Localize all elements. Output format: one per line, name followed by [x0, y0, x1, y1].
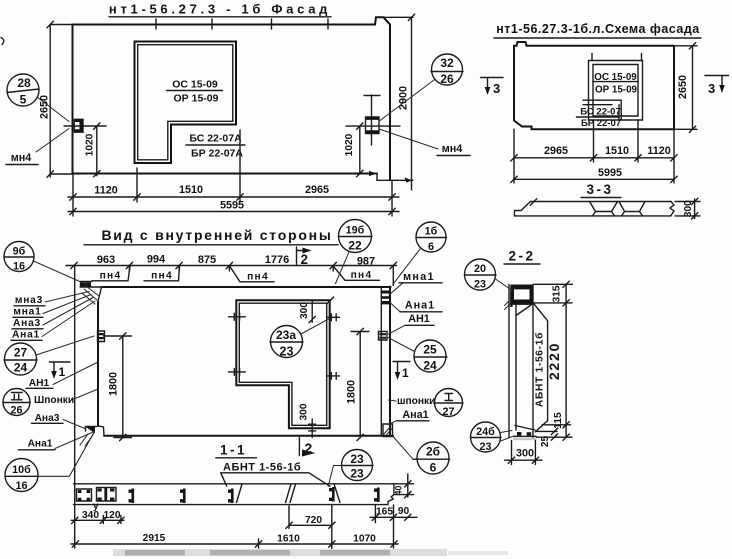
schema window notch box — [583, 100, 621, 120]
svg-text:315: 315 — [552, 285, 563, 302]
callout circle 23a/23 — [271, 326, 303, 358]
svg-text:120: 120 — [104, 510, 121, 521]
svg-text:БР 22-07: БР 22-07 — [581, 118, 621, 129]
small mark at left edge — [1, 38, 4, 45]
anchor cross right bottom — [327, 372, 340, 379]
mid-left bracket — [98, 331, 105, 342]
bottom dim line 5995 — [514, 162, 674, 183]
leader 10b/16 to corner — [38, 432, 94, 477]
svg-text:20: 20 — [474, 263, 486, 275]
svg-text:300: 300 — [683, 200, 694, 217]
section 3-3 slab outline — [515, 202, 672, 216]
break line right end — [670, 202, 674, 216]
svg-text:5: 5 — [20, 93, 27, 107]
svg-text:Ана3: Ана3 — [13, 318, 41, 329]
dim 2900 right — [411, 17, 413, 190]
body top bevel — [516, 305, 531, 316]
dim 300 bottom — [505, 441, 543, 465]
mid-right bracket — [379, 332, 388, 341]
svg-text:1776: 1776 — [265, 254, 289, 266]
joint ticks on facade top edge — [156, 19, 328, 29]
underline — [167, 90, 223, 92]
svg-text:АН1: АН1 — [29, 378, 50, 389]
small arrow at facade bottom edge end — [369, 171, 377, 176]
dim 300 right — [675, 199, 700, 219]
section 1-1 slab outline — [74, 484, 394, 505]
svg-text:26: 26 — [440, 72, 454, 86]
svg-text:1510: 1510 — [179, 184, 203, 196]
leader from 28/5 to left embed — [37, 97, 69, 122]
svg-text:115: 115 — [553, 412, 564, 429]
title underline — [504, 263, 540, 265]
window opening L-shape outer — [135, 42, 237, 164]
anchor cross bottom edge — [309, 419, 316, 437]
svg-text:пн4: пн4 — [151, 271, 173, 282]
svg-text:24: 24 — [423, 359, 437, 373]
top dim line — [66, 266, 397, 272]
svg-text:23а: 23а — [276, 328, 296, 342]
right embed detail mn4 — [346, 95, 400, 145]
key slant lines in slab — [237, 484, 341, 503]
svg-text:Вид с внутренней стороны: Вид с внутренней стороны — [101, 227, 332, 243]
schema window outer — [589, 61, 643, 121]
svg-text:28: 28 — [17, 76, 31, 90]
facade panel outline — [73, 17, 391, 180]
panel right edge inner line — [380, 287, 382, 436]
section mark 1 left — [50, 362, 71, 375]
svg-text:23: 23 — [350, 452, 364, 466]
dim 40 right end — [394, 474, 414, 497]
svg-text:23: 23 — [479, 441, 491, 453]
svg-text:22: 22 — [348, 239, 362, 253]
svg-text:БС 22-07А: БС 22-07А — [189, 133, 242, 145]
facade bottom-right step extension — [377, 174, 413, 181]
panel outline — [98, 287, 393, 436]
svg-text:шпонки: шпонки — [397, 396, 435, 407]
svg-text:Шпонки: Шпонки — [34, 395, 74, 406]
svg-text:пн4: пн4 — [351, 270, 373, 281]
svg-text:23: 23 — [280, 345, 294, 359]
callout circle 25/24 — [414, 340, 446, 372]
svg-text:3-3: 3-3 — [586, 182, 613, 197]
svg-text:1610: 1610 — [277, 534, 300, 545]
schema window inner — [593, 65, 638, 117]
extension right — [392, 266, 394, 286]
top extension line — [534, 283, 573, 285]
bottom dim 2915/1610/1070 — [71, 505, 398, 548]
svg-text:БР 22-07А: БР 22-07А — [191, 148, 243, 160]
svg-text:300: 300 — [299, 302, 310, 319]
svg-text:1800: 1800 — [346, 380, 358, 404]
svg-text:25: 25 — [540, 436, 551, 448]
svg-text:2: 2 — [305, 440, 313, 456]
dim 300 top of opening — [311, 300, 313, 322]
stubs above window corners — [592, 54, 642, 61]
dim 340/120 — [71, 516, 124, 524]
svg-text:5995: 5995 — [598, 167, 622, 179]
svg-text:2б: 2б — [426, 445, 440, 459]
bottom dim line 2965/1510/1120 — [514, 120, 674, 162]
leader mn4 right to embed — [379, 129, 438, 149]
callout circle 27/24 — [5, 343, 37, 375]
svg-text:9б: 9б — [13, 246, 26, 258]
bottom bearing detail — [514, 435, 537, 437]
svg-text:3: 3 — [708, 81, 715, 96]
leader mn4 to embed — [36, 129, 69, 153]
section mark 1 right — [393, 362, 410, 376]
schema window division line — [593, 81, 638, 83]
callout circle 28/5 — [7, 74, 39, 106]
svg-text:40: 40 — [394, 486, 404, 496]
callout circle 32/26 — [432, 54, 463, 85]
title underline — [216, 457, 257, 459]
bottom dim line 5595 — [68, 211, 399, 213]
dim 720 — [289, 505, 332, 549]
underline — [576, 116, 619, 118]
svg-text:2915: 2915 — [143, 533, 166, 544]
svg-text:32: 32 — [440, 56, 454, 70]
callout circle II/26 — [3, 389, 30, 416]
leader 23a to opening corner — [301, 319, 330, 335]
joint key trapezoid 2 — [619, 202, 645, 216]
facade top-right tab extension line — [384, 16, 414, 18]
svg-text:мна3: мна3 — [15, 295, 43, 306]
top-left corner anchor detail — [80, 282, 102, 288]
svg-text:мн4: мн4 — [442, 143, 463, 155]
anchor cross left top — [229, 313, 246, 320]
svg-text:1020: 1020 — [344, 133, 355, 156]
svg-text:10б: 10б — [12, 464, 31, 476]
dim line right of 2-2 — [534, 284, 572, 437]
section mark 2 bottom — [298, 438, 300, 456]
anchor cross left bottom — [229, 368, 246, 375]
svg-text:нт1-56.27.3-1б.л.Схема фасада: нт1-56.27.3-1б.л.Схема фасада — [496, 22, 700, 36]
svg-text:300: 300 — [516, 448, 534, 460]
svg-text:Ана1: Ана1 — [405, 300, 435, 312]
left anchor complex box 1 — [77, 489, 92, 501]
title underline — [109, 16, 331, 18]
callout circle 10b/16 — [5, 459, 38, 492]
dim 2650 left — [50, 25, 72, 178]
svg-text:БС 22-07: БС 22-07 — [580, 107, 621, 118]
title underline — [494, 37, 701, 39]
leader 23/23 to slab anchor — [328, 466, 341, 487]
svg-text:АН1: АН1 — [408, 313, 430, 325]
bottom smudge band — [113, 549, 447, 556]
svg-text:Ана1: Ана1 — [12, 330, 40, 341]
svg-text:Ана1: Ана1 — [28, 439, 53, 450]
left embed detail mn4 — [64, 119, 106, 132]
dim 165 — [370, 506, 417, 523]
anchor cross right top — [327, 314, 340, 321]
section mark 3 right — [705, 76, 729, 88]
callout circle I/27 — [435, 389, 463, 417]
svg-text:2965: 2965 — [544, 145, 568, 157]
svg-text:90: 90 — [398, 506, 410, 517]
section mark 3 left — [481, 78, 504, 90]
callout circle 2b/6 — [417, 442, 449, 474]
svg-text:2220: 2220 — [546, 342, 562, 380]
svg-text:2650: 2650 — [39, 95, 51, 119]
opening inner — [239, 303, 326, 425]
callout circle 24b/23 — [471, 422, 501, 452]
svg-text:19б: 19б — [346, 225, 365, 237]
svg-text:23: 23 — [350, 467, 364, 481]
dim 2650 right — [674, 46, 697, 130]
callout circle 1b/6 — [416, 222, 446, 252]
svg-text:300: 300 — [299, 403, 310, 420]
svg-text:1120: 1120 — [647, 145, 670, 157]
section body edges — [509, 285, 533, 438]
slash on slab top left — [530, 198, 537, 205]
callout circle 9b/16 — [4, 242, 34, 272]
window opening L-shape inner — [138, 45, 233, 160]
svg-text:987: 987 — [357, 256, 375, 268]
callout circle 23/23 — [342, 450, 373, 481]
title underline — [581, 197, 621, 199]
svg-text:994: 994 — [147, 254, 166, 266]
svg-text:2650: 2650 — [677, 75, 689, 99]
long extension line left — [74, 266, 76, 549]
svg-text:1800: 1800 — [108, 372, 120, 396]
svg-text:ОС 15-09: ОС 15-09 — [172, 79, 218, 91]
svg-text:АБНТ 1-56-1б: АБНТ 1-56-1б — [534, 332, 546, 407]
svg-text:6: 6 — [430, 461, 437, 475]
svg-text:1020: 1020 — [85, 133, 96, 156]
svg-text:963: 963 — [97, 254, 115, 266]
leader from 32/26 to right embed — [380, 80, 434, 121]
svg-text:23: 23 — [474, 279, 486, 291]
svg-text:16: 16 — [15, 480, 27, 492]
svg-text:нт1-56.27.3 - 1б Фасад: нт1-56.27.3 - 1б Фасад — [109, 2, 331, 17]
svg-text:25: 25 — [423, 343, 437, 357]
svg-text:24: 24 — [14, 361, 28, 375]
svg-text:мна1: мна1 — [13, 307, 41, 318]
top channel detail frame — [511, 285, 533, 304]
svg-text:24б: 24б — [476, 426, 495, 438]
svg-text:165: 165 — [376, 507, 393, 518]
joint key trapezoid 1 — [590, 202, 618, 216]
svg-text:875: 875 — [198, 254, 216, 266]
top-right bracket — [382, 291, 391, 305]
svg-text:1070: 1070 — [353, 534, 376, 545]
svg-text:Ана3: Ана3 — [35, 413, 60, 424]
svg-text:АБНТ 1-56-1б: АБНТ 1-56-1б — [223, 462, 301, 474]
svg-text:5595: 5595 — [220, 200, 244, 212]
svg-text:пн4: пн4 — [247, 272, 269, 283]
svg-text:мн4: мн4 — [11, 152, 32, 164]
svg-text:ОС 15-09: ОС 15-09 — [594, 72, 637, 83]
bottom-left corner anchor detail — [86, 427, 97, 432]
opening outer — [236, 300, 329, 428]
hatch below left of channel — [505, 301, 512, 310]
title underline — [84, 244, 338, 246]
svg-text:26: 26 — [10, 405, 22, 417]
dim 1020 left — [96, 126, 98, 176]
label outline polygon — [533, 303, 548, 432]
svg-text:2965: 2965 — [305, 184, 329, 196]
svg-text:3: 3 — [493, 81, 500, 96]
svg-text:2: 2 — [301, 252, 309, 267]
underline — [186, 144, 245, 146]
bar anchor marks — [129, 489, 135, 504]
svg-text:16: 16 — [13, 261, 25, 273]
dim 1020 right — [359, 126, 361, 174]
callout circle 19b/22 — [339, 220, 372, 253]
svg-text:пн4: пн4 — [100, 271, 122, 282]
svg-text:1120: 1120 — [94, 185, 117, 197]
svg-text:1-1: 1-1 — [220, 443, 247, 458]
svg-text:6: 6 — [428, 241, 434, 253]
svg-text:1: 1 — [59, 365, 66, 379]
svg-text:27: 27 — [442, 406, 454, 418]
svg-text:27: 27 — [14, 346, 28, 360]
bottom-right bracket — [383, 424, 393, 437]
svg-text:340: 340 — [82, 510, 99, 521]
svg-text:2-2: 2-2 — [508, 249, 535, 264]
bottom dim line 1120/1510/2965 — [68, 130, 399, 216]
svg-text:Ана1: Ана1 — [402, 409, 428, 421]
section mark 2 top — [297, 247, 308, 265]
svg-text:1510: 1510 — [605, 145, 629, 157]
svg-text:ОР 15-09: ОР 15-09 — [174, 93, 219, 105]
schema panel outline with top-left tab and bottom-left step — [514, 42, 674, 129]
svg-text:1: 1 — [402, 366, 409, 380]
left anchor complex box 2 — [97, 488, 117, 502]
dim 1800 right — [351, 332, 369, 438]
svg-text:720: 720 — [305, 515, 322, 526]
panel corner bevels — [98, 287, 104, 436]
svg-text:1б: 1б — [425, 226, 438, 238]
svg-text:ОР 15-09: ОР 15-09 — [595, 85, 637, 96]
dim 1800 left — [104, 336, 132, 438]
callout circle 20/23 — [465, 259, 496, 290]
ABNT flag underline with end diagonals — [221, 473, 330, 487]
svg-text:мна1: мна1 — [403, 271, 435, 283]
